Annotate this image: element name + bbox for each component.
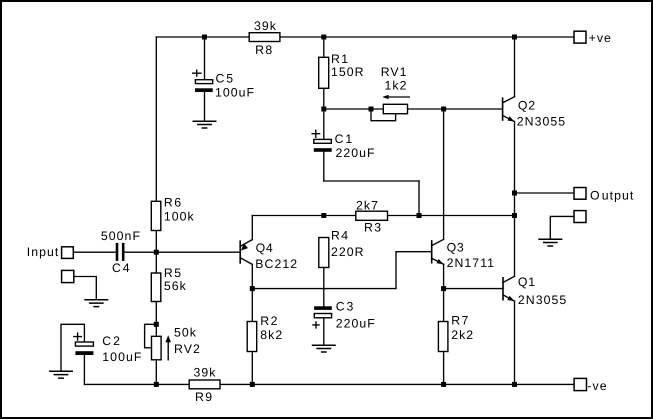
- node Q3 emitter: [441, 286, 446, 291]
- svg-text:2N1711: 2N1711: [447, 256, 495, 270]
- capacitor C2 100uF: [74, 333, 143, 364]
- wire C4 to input node: [124, 251, 156, 253]
- node input/C4: [154, 250, 159, 255]
- svg-text:Q4: Q4: [256, 241, 274, 255]
- wire node to C1 top: [323, 109, 325, 140]
- wire C1 jog down to 2k7 line: [418, 181, 420, 216]
- svg-text:2N3055: 2N3055: [518, 293, 567, 307]
- svg-text:2k2: 2k2: [451, 328, 474, 342]
- node R4 top: [321, 213, 326, 218]
- svg-text:Output: Output: [590, 188, 634, 202]
- node RV1 right: [441, 107, 446, 112]
- wire C3 bottom to ground: [323, 318, 325, 345]
- node RV1 left: [369, 107, 374, 112]
- node Q4 collector: [250, 286, 255, 291]
- wire Q4 base from input node: [156, 251, 240, 253]
- node RV2 wiper: [154, 322, 159, 327]
- resistor R1 150R: [319, 52, 365, 89]
- wire R6 bottom to R5 top: [155, 231, 157, 274]
- terminal Output: [574, 188, 634, 203]
- terminal +ve: [574, 31, 612, 45]
- svg-text:+ve: +ve: [589, 31, 612, 45]
- transistor Q4 BC212: [240, 240, 298, 271]
- wire top +ve rail: [156, 36, 574, 38]
- capacitor C3 220uF: [313, 299, 376, 330]
- svg-text:50k: 50k: [174, 326, 197, 340]
- wire left column top (rail to R6): [155, 37, 157, 201]
- wire R1 node to Q2 base: [324, 108, 503, 110]
- junction node dots: [154, 35, 517, 387]
- capacitor C4 500nF: [101, 229, 141, 275]
- terminal -ve: [574, 378, 608, 393]
- resistor R7 2k2: [438, 314, 474, 352]
- resistor R3 2k7: [356, 198, 388, 234]
- wire R2 bottom to -ve rail: [251, 351, 253, 384]
- wire RV2 wiper: [145, 324, 157, 348]
- node RV2/-ve rail: [154, 382, 159, 387]
- resistor R8 39k: [249, 19, 280, 57]
- node R1 bottom: [321, 107, 326, 112]
- svg-text:500nF: 500nF: [101, 229, 141, 243]
- node output column/2k7: [512, 213, 517, 218]
- svg-text:RV2: RV2: [174, 342, 201, 356]
- svg-text:220uF: 220uF: [336, 146, 376, 160]
- svg-text:Q3: Q3: [447, 240, 465, 254]
- svg-text:R8: R8: [255, 43, 273, 57]
- svg-text:C4: C4: [112, 261, 131, 275]
- wire C2 bottom to rail: [83, 355, 85, 384]
- node R1/rail: [321, 35, 326, 40]
- resistor R6 100k: [151, 196, 194, 231]
- terminal input ground: [62, 270, 74, 282]
- capacitor C1 220uF: [312, 130, 376, 160]
- wire R1 bottom to node: [323, 88, 325, 109]
- svg-text:220R: 220R: [331, 245, 365, 259]
- svg-text:R7: R7: [451, 314, 469, 328]
- wire input ground jog: [74, 277, 97, 300]
- svg-text:C2: C2: [102, 334, 121, 348]
- wire C2 top to ground jog: [61, 324, 84, 371]
- svg-text:8k2: 8k2: [260, 328, 283, 342]
- svg-text:Q2: Q2: [518, 98, 536, 112]
- ground (C5): [193, 121, 217, 128]
- svg-text:100uF: 100uF: [215, 86, 255, 100]
- wire RV2 bottom to -ve rail: [155, 360, 157, 385]
- wire RV1 node down to Q3 collector: [443, 109, 445, 239]
- wire C1 bottom jog down: [323, 152, 325, 181]
- wire C5 to ground: [204, 92, 206, 121]
- wire output ground jog: [550, 216, 574, 239]
- svg-text:C1: C1: [335, 132, 354, 146]
- svg-text:39k: 39k: [254, 19, 277, 33]
- svg-text:2k7: 2k7: [356, 198, 379, 212]
- node C1 jog: [417, 213, 422, 218]
- svg-text:C5: C5: [216, 71, 235, 85]
- wire Q2 emitter down to Q1 collector: [514, 122, 516, 277]
- wire RV1 wiper: [371, 109, 396, 121]
- capacitor C5 100uF: [193, 70, 255, 99]
- svg-text:39k: 39k: [194, 365, 217, 379]
- ground (C3): [312, 345, 336, 352]
- svg-text:R1: R1: [331, 52, 349, 66]
- node R2/-ve rail: [250, 382, 255, 387]
- wire -ve bottom rail: [84, 383, 574, 385]
- resistor R2 8k2: [247, 314, 283, 352]
- svg-text:RV1: RV1: [381, 65, 408, 79]
- node R7/-ve rail: [441, 382, 446, 387]
- svg-text:Input: Input: [27, 245, 60, 259]
- svg-text:R3: R3: [364, 220, 382, 234]
- svg-text:-ve: -ve: [587, 379, 607, 393]
- wire rail to R1 top: [323, 37, 325, 57]
- terminal Input: [27, 245, 73, 259]
- transistor Q2 2N3055: [503, 97, 567, 129]
- svg-text:100uF: 100uF: [102, 350, 142, 364]
- resistor R9 39k: [189, 365, 220, 404]
- svg-text:56k: 56k: [164, 279, 187, 293]
- ground (input): [84, 300, 108, 307]
- node output: [512, 191, 517, 196]
- svg-text:220uF: 220uF: [336, 316, 376, 330]
- ground (C2): [49, 371, 73, 378]
- svg-text:100k: 100k: [164, 210, 195, 224]
- svg-text:R6: R6: [164, 196, 182, 210]
- terminal output ground: [574, 211, 586, 223]
- potentiometer RV1 1k2: [381, 65, 410, 114]
- resistor R4 220R: [319, 229, 365, 268]
- wire R7 bottom to -ve rail: [443, 351, 445, 384]
- transistor Q1 2N3055: [503, 275, 567, 307]
- svg-text:R2: R2: [260, 314, 278, 328]
- wire Q4 collector down to R2: [251, 264, 253, 321]
- wire C1 jog horizontal: [324, 180, 419, 182]
- svg-text:Q1: Q1: [518, 275, 536, 289]
- resistor R5 56k: [151, 266, 187, 302]
- transistor Q3 2N1711: [432, 239, 495, 270]
- wire Q2 collector to rail: [514, 37, 516, 97]
- svg-text:BC212: BC212: [255, 257, 298, 271]
- wire C5 branch from rail: [204, 37, 206, 80]
- wire R5 bottom to RV2 top: [155, 302, 157, 337]
- wire R4 bottom to C3 top: [323, 267, 325, 306]
- wire Q3 emitter node to Q1 base: [444, 288, 503, 290]
- wire Q4 collector node to Q3 base jog: [252, 252, 431, 289]
- svg-text:R9: R9: [195, 390, 213, 404]
- potentiometer RV2 50k: [152, 326, 201, 360]
- wire output node to terminal: [515, 192, 575, 194]
- wire input terminal to C4: [73, 251, 115, 253]
- node Q1 emitter/-ve rail: [512, 382, 517, 387]
- wire node to Q4 emitter: [251, 216, 253, 240]
- node C5/rail: [202, 35, 207, 40]
- svg-text:2N3055: 2N3055: [517, 114, 566, 128]
- svg-text:C3: C3: [336, 299, 355, 313]
- wire Q3 emitter down to R7: [443, 264, 445, 321]
- ground (output): [538, 239, 562, 246]
- wire 2k7 line: [252, 215, 514, 217]
- svg-text:R4: R4: [331, 229, 349, 243]
- wire Q1 emitter to -ve rail: [514, 301, 516, 384]
- svg-text:150R: 150R: [331, 65, 365, 79]
- svg-text:1k2: 1k2: [385, 79, 408, 93]
- svg-text:R5: R5: [164, 266, 182, 280]
- node Q2 collector/rail: [512, 35, 517, 40]
